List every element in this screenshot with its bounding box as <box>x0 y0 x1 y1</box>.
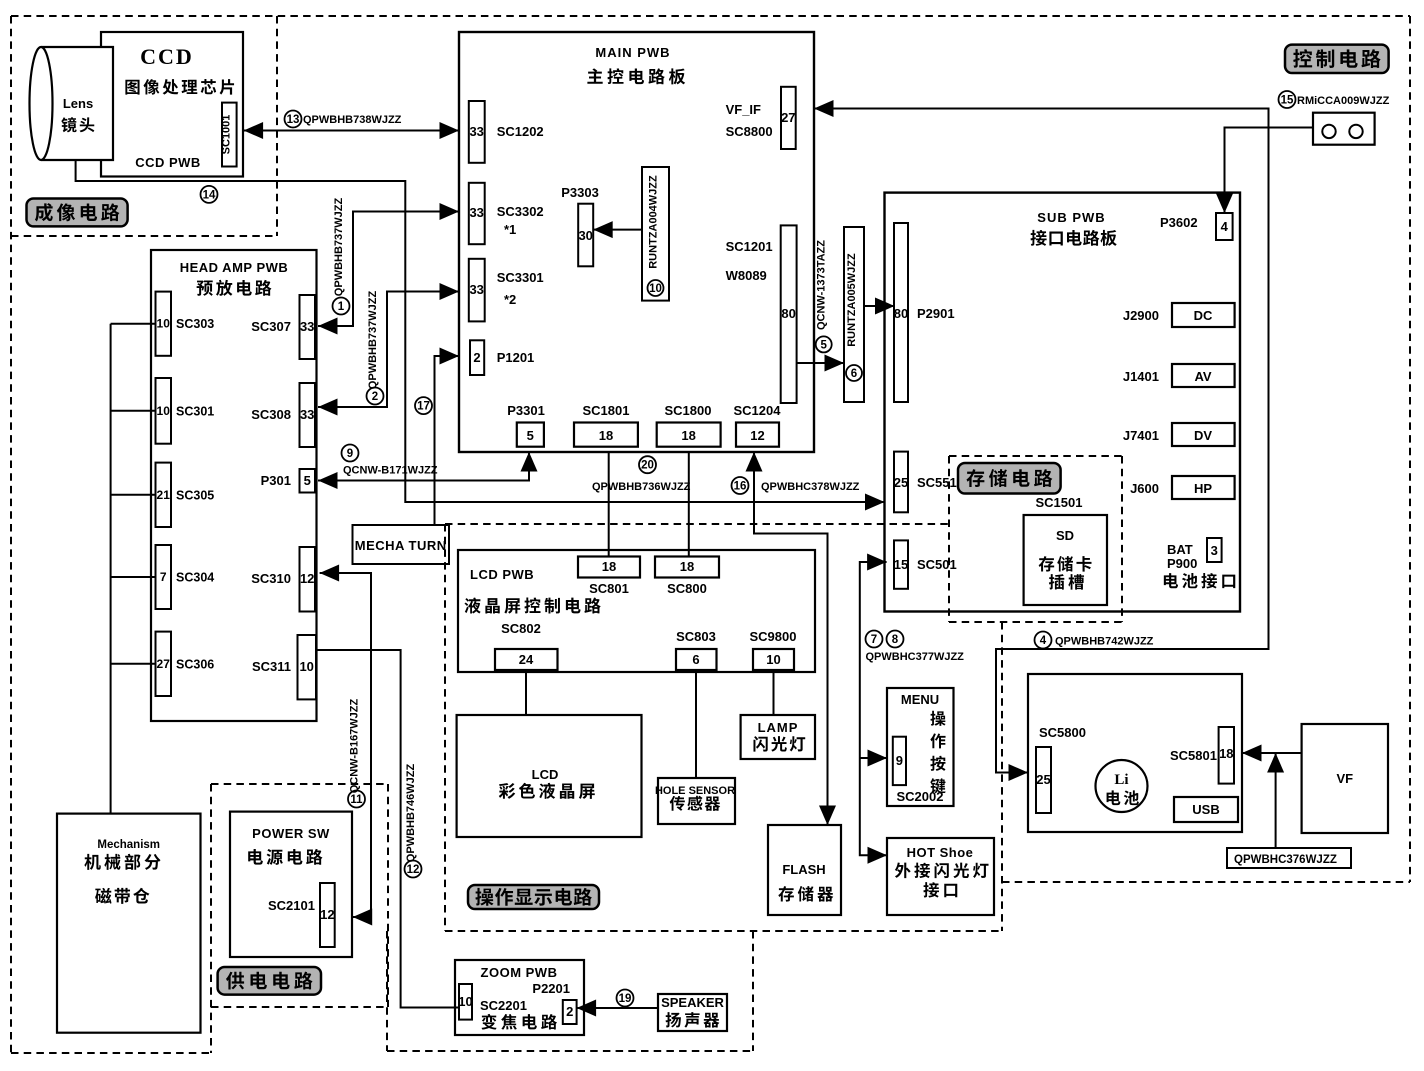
svg-text:CCD: CCD <box>140 44 194 69</box>
svg-text:QPWBHC376WJZZ: QPWBHC376WJZZ <box>1234 854 1337 866</box>
connector J2900 DC <box>1123 303 1235 327</box>
block SD card slot SC1501 <box>1024 495 1107 605</box>
svg-text:SC303: SC303 <box>176 317 214 331</box>
svg-text:SC1001: SC1001 <box>221 115 233 155</box>
svg-text:27: 27 <box>157 657 171 671</box>
block Li battery board <box>1028 674 1242 832</box>
connector SC3302 <box>469 183 544 244</box>
svg-text:RUNTZA004WJZZ: RUNTZA004WJZZ <box>648 175 660 269</box>
block SPEAKER <box>658 994 727 1031</box>
svg-text:9: 9 <box>896 753 903 768</box>
svg-text:USB: USB <box>1192 802 1219 817</box>
block remote connector <box>1313 113 1375 145</box>
svg-text:*2: *2 <box>504 292 516 307</box>
svg-text:QCNW-B167WJZZ: QCNW-B167WJZZ <box>349 698 361 793</box>
svg-text:25: 25 <box>894 475 908 490</box>
label 9 QCNW-B171WJZZ <box>342 445 438 477</box>
svg-text:11: 11 <box>350 794 363 806</box>
svg-text:SC307: SC307 <box>251 319 291 334</box>
svg-text:80: 80 <box>894 306 908 321</box>
connector USB <box>1174 797 1238 822</box>
svg-text:P3301: P3301 <box>507 403 545 418</box>
svg-text:BAT: BAT <box>1167 542 1193 557</box>
block HEAD AMP PWB <box>151 250 317 721</box>
wire head amp bus to mechanism <box>111 324 156 814</box>
wire 1 QPWBHB737WJZZ SC307-SC3302 <box>318 203 459 335</box>
svg-text:J1401: J1401 <box>1123 369 1159 384</box>
connector SC311 <box>252 635 316 699</box>
connector P1201 <box>470 340 534 375</box>
wire 9 QCNW-B171WJZZ P301-P3301 <box>318 452 538 489</box>
svg-text:2: 2 <box>473 350 480 365</box>
svg-text:SC2101: SC2101 <box>268 898 315 913</box>
label 12 QPWBHB746WJZZ <box>405 764 422 878</box>
wire 12 QPWBHB746WJZZ SC311 to ZOOM PWB <box>317 650 459 1008</box>
region storage dashed box <box>949 456 1122 622</box>
connector SC2002 9 <box>893 737 906 785</box>
wire 20 QPWBHB736WJZZ SC1801/SC1800 to LCD PWB <box>609 452 689 557</box>
label power-supply 供电电路 <box>218 967 321 995</box>
connector SC310 <box>251 547 315 612</box>
svg-text:CCD PWB: CCD PWB <box>135 155 201 170</box>
svg-text:17: 17 <box>417 401 430 413</box>
svg-text:Mechanism: Mechanism <box>97 839 160 851</box>
svg-text:SC802: SC802 <box>501 621 541 636</box>
svg-text:33: 33 <box>469 205 483 220</box>
svg-text:QPWBHC378WJZZ: QPWBHC378WJZZ <box>761 481 860 493</box>
svg-text:80: 80 <box>781 306 795 321</box>
connector SC802 24 <box>495 621 558 670</box>
svg-text:P3602: P3602 <box>1160 215 1198 230</box>
svg-text:33: 33 <box>300 407 314 422</box>
svg-text:J7401: J7401 <box>1123 428 1159 443</box>
svg-text:10: 10 <box>458 994 472 1009</box>
connector SC5800 25 <box>1036 725 1086 813</box>
svg-text:SC305: SC305 <box>176 488 214 502</box>
svg-text:12: 12 <box>320 907 334 922</box>
svg-text:HOLE SENSOR: HOLE SENSOR <box>655 785 735 797</box>
svg-text:4: 4 <box>1040 635 1047 647</box>
svg-text:SC1800: SC1800 <box>665 403 712 418</box>
connector SC301 <box>156 378 215 444</box>
svg-text:18: 18 <box>1219 746 1233 761</box>
block VF <box>1302 724 1388 833</box>
svg-text:13: 13 <box>287 114 300 126</box>
svg-text:21: 21 <box>157 488 171 502</box>
svg-text:P3303: P3303 <box>561 185 599 200</box>
svg-text:2: 2 <box>372 391 378 403</box>
svg-text:15: 15 <box>894 557 908 572</box>
connector BAT P900 3 <box>1164 538 1235 589</box>
svg-text:1: 1 <box>338 301 345 313</box>
svg-text:POWER SW: POWER SW <box>252 826 330 841</box>
svg-text:18: 18 <box>599 428 613 443</box>
label 16 QPWBHC378WJZZ <box>732 477 860 494</box>
wire 15 remote to P3602 <box>1216 128 1313 214</box>
label 4 QPWBHB742WJZZ <box>1035 632 1154 649</box>
connector SC306 <box>156 632 215 696</box>
connector P3303 <box>561 185 599 266</box>
block MENU SC2002 <box>887 688 954 806</box>
svg-text:HEAD AMP PWB: HEAD AMP PWB <box>180 260 289 275</box>
block HOLE SENSOR <box>655 778 735 824</box>
label 7 8 QPWBHC377WJZZ <box>866 631 965 664</box>
connector RUNTZA004WJZZ 10 <box>642 167 669 301</box>
svg-text:SC2201: SC2201 <box>480 998 527 1013</box>
block SUB PWB <box>885 193 1241 612</box>
label 13 QPWBHB738WJZZ <box>285 111 402 128</box>
svg-text:MECHA TURN: MECHA TURN <box>355 538 447 553</box>
connector SC9800 10 <box>750 629 797 670</box>
connector P2201 2 <box>563 1000 577 1024</box>
svg-text:SC800: SC800 <box>667 581 707 596</box>
svg-text:SC1801: SC1801 <box>583 403 630 418</box>
wire 16 SC1204 to FLASH <box>746 452 837 825</box>
svg-text:33: 33 <box>469 124 483 139</box>
wire VF to SC5801 <box>1242 745 1302 762</box>
wire 17 MECHA TURN to P1201 <box>435 348 460 526</box>
svg-text:ZOOM PWB: ZOOM PWB <box>481 965 558 980</box>
svg-text:SC501: SC501 <box>917 557 957 572</box>
connector SC1204 <box>734 403 782 447</box>
block ZOOM PWB <box>455 960 584 1035</box>
svg-text:10: 10 <box>766 652 780 667</box>
wire 7/8 QPWBHC377WJZZ SC501/MENU/HOT Shoe <box>860 554 887 864</box>
svg-text:SC3302: SC3302 <box>497 204 544 219</box>
svg-text:P2901: P2901 <box>917 306 955 321</box>
block CCD PWB <box>101 32 243 177</box>
svg-text:14: 14 <box>203 189 216 201</box>
connector SC303 <box>156 292 215 356</box>
svg-text:LAMP: LAMP <box>758 720 799 735</box>
svg-text:10: 10 <box>649 283 662 295</box>
battery Li <box>1096 760 1148 812</box>
svg-text:P1201: P1201 <box>497 350 535 365</box>
connector P301 <box>261 469 315 493</box>
wire LCD PWB to LCD panel <box>525 670 527 715</box>
connector J600 HP <box>1130 476 1235 499</box>
svg-text:*1: *1 <box>504 222 516 237</box>
wire SC803 to HOLE SENSOR <box>695 670 697 778</box>
svg-text:LCD: LCD <box>532 767 559 782</box>
svg-text:4: 4 <box>1221 219 1229 234</box>
svg-text:25: 25 <box>1036 772 1050 787</box>
svg-text:SC308: SC308 <box>251 407 291 422</box>
label control-circuit 控制电路 <box>1285 45 1389 73</box>
svg-text:12: 12 <box>407 864 420 876</box>
label 11 QCNW-B167WJZZ <box>348 698 365 807</box>
svg-text:SC801: SC801 <box>589 581 629 596</box>
svg-text:18: 18 <box>680 559 694 574</box>
svg-text:SC1202: SC1202 <box>497 124 544 139</box>
wire 11 QCNW-B167WJZZ SC310 to POWER SW <box>320 565 373 926</box>
svg-text:W8089: W8089 <box>726 268 767 283</box>
svg-text:33: 33 <box>469 282 483 297</box>
svg-text:6: 6 <box>692 652 699 667</box>
svg-text:SC310: SC310 <box>251 571 291 586</box>
svg-text:SC3301: SC3301 <box>497 270 544 285</box>
label 5 QCNW-1373TAZZ <box>816 240 832 353</box>
svg-text:27: 27 <box>781 110 795 125</box>
svg-text:FLASH: FLASH <box>782 862 825 877</box>
connector P3301 <box>507 403 545 447</box>
connector SC307 <box>251 295 315 359</box>
svg-text:9: 9 <box>347 448 353 460</box>
svg-text:MENU: MENU <box>901 692 939 707</box>
svg-text:J2900: J2900 <box>1123 308 1159 323</box>
svg-text:6: 6 <box>851 368 857 380</box>
block MAIN PWB <box>459 32 814 452</box>
block LCD panel <box>457 715 642 837</box>
wire 5 QCNW-1373TAZZ 80 to RUNTZA005 <box>797 355 844 372</box>
svg-text:10: 10 <box>157 404 171 418</box>
svg-text:SC1501: SC1501 <box>1036 495 1083 510</box>
wire 19 SPEAKER to P2201 <box>577 1000 658 1017</box>
svg-text:RUNTZA005WJZZ: RUNTZA005WJZZ <box>846 253 858 347</box>
svg-text:AV: AV <box>1194 369 1211 384</box>
connector SC8800 27 VF_IF <box>726 87 796 149</box>
svg-text:3: 3 <box>1211 543 1218 558</box>
block FLASH memory <box>768 825 841 915</box>
label 15 RMiCCA009WJZZ <box>1279 91 1390 108</box>
svg-text:12: 12 <box>300 571 314 586</box>
svg-text:SC9800: SC9800 <box>750 629 797 644</box>
connector SC1800 <box>657 403 721 447</box>
label 17 <box>415 397 432 414</box>
connector SC501 15 <box>894 540 957 588</box>
svg-text:33: 33 <box>300 319 314 334</box>
region control dashed bottom edge <box>1002 881 1410 883</box>
svg-text:7: 7 <box>160 570 167 584</box>
svg-text:QPWBHB737WJZZ: QPWBHB737WJZZ <box>367 291 379 390</box>
connector SC1801 <box>574 403 638 447</box>
block LCD PWB <box>458 550 815 672</box>
svg-text:DC: DC <box>1194 308 1213 323</box>
connector P2901 80 <box>894 223 955 402</box>
block MECHA TURN <box>353 525 450 564</box>
svg-text:8: 8 <box>892 634 899 646</box>
svg-text:30: 30 <box>578 228 592 243</box>
connector SC551 25 <box>894 452 957 513</box>
svg-text:7: 7 <box>871 634 877 646</box>
svg-text:HOT Shoe: HOT Shoe <box>907 845 974 860</box>
lens <box>30 47 114 160</box>
svg-text:SC1204: SC1204 <box>734 403 782 418</box>
svg-text:P301: P301 <box>261 473 291 488</box>
connector SC801 18 <box>578 557 640 597</box>
wire QPWBHC376WJZZ to VF line <box>1267 753 1284 848</box>
region operation-display dashed box <box>445 524 1002 931</box>
svg-text:10: 10 <box>157 317 171 331</box>
block HOT Shoe <box>887 838 994 915</box>
label 1 QPWBHB737WJZZ <box>333 198 350 315</box>
svg-text:VF_IF: VF_IF <box>726 102 761 117</box>
label 20 QPWBHB736WJZZ <box>592 456 691 493</box>
svg-text:MAIN PWB: MAIN PWB <box>595 45 670 60</box>
svg-text:SC2002: SC2002 <box>897 789 944 804</box>
svg-text:P2201: P2201 <box>532 981 570 996</box>
block LAMP <box>741 715 815 759</box>
connector SC1201 80 W8089 <box>726 225 797 403</box>
label storage-circuit 存储电路 <box>958 463 1061 494</box>
svg-text:RMiCCA009WJZZ: RMiCCA009WJZZ <box>1297 95 1390 107</box>
svg-text:J600: J600 <box>1130 481 1159 496</box>
svg-text:Lens: Lens <box>63 96 93 111</box>
connector SC3301 <box>469 259 544 322</box>
svg-text:24: 24 <box>519 652 534 667</box>
svg-text:SUB PWB: SUB PWB <box>1037 210 1105 225</box>
svg-text:DV: DV <box>1194 428 1212 443</box>
wire VF_IF SC8800 to Li battery SC5800 / 4 QPWBHB742WJZZ <box>814 100 1269 781</box>
svg-text:5: 5 <box>304 473 311 488</box>
svg-text:19: 19 <box>619 993 632 1005</box>
svg-text:SC551: SC551 <box>917 475 957 490</box>
label 2 QPWBHB737WJZZ <box>367 291 384 405</box>
svg-text:15: 15 <box>1281 95 1294 107</box>
label operation-display 操作显示电路 <box>468 885 599 909</box>
svg-text:QCNW-1373TAZZ: QCNW-1373TAZZ <box>816 240 828 330</box>
svg-text:SC5801: SC5801 <box>1170 748 1217 763</box>
svg-text:QPWBHB746WJZZ: QPWBHB746WJZZ <box>405 764 417 863</box>
svg-text:QCNW-B171WJZZ: QCNW-B171WJZZ <box>343 465 438 477</box>
label 14 <box>201 186 218 203</box>
svg-text:SC311: SC311 <box>252 659 291 674</box>
svg-text:SC306: SC306 <box>176 657 214 671</box>
label imaging-circuit 成像电路 <box>27 199 128 227</box>
wire SC9800 to LAMP <box>773 670 775 715</box>
connector SC305 <box>156 463 215 527</box>
svg-text:SD: SD <box>1056 528 1074 543</box>
svg-text:10: 10 <box>299 659 313 674</box>
svg-text:5: 5 <box>527 428 534 443</box>
svg-text:LCD PWB: LCD PWB <box>470 567 534 582</box>
connector SC800 18 <box>655 557 719 597</box>
connector SC304 <box>156 545 215 609</box>
connector RUNTZA005WJZZ 6 <box>844 227 864 402</box>
connector J1401 AV <box>1123 364 1235 387</box>
wire 13 QPWBHB738WJZZ CCD-MAIN <box>244 122 459 139</box>
block Mechanism <box>57 814 201 1033</box>
svg-text:5: 5 <box>820 339 827 351</box>
svg-text:QPWBHB742WJZZ: QPWBHB742WJZZ <box>1055 636 1154 648</box>
svg-text:SC803: SC803 <box>676 629 716 644</box>
block POWER SW <box>230 812 352 957</box>
svg-text:SC8800: SC8800 <box>726 124 773 139</box>
svg-text:2: 2 <box>566 1004 573 1019</box>
wire 14/16 CCD to SC551 QPWBHC378WJZZ <box>76 160 885 511</box>
svg-text:P900: P900 <box>1167 556 1197 571</box>
svg-text:12: 12 <box>750 428 764 443</box>
svg-text:HP: HP <box>1194 481 1212 496</box>
connector SC2101 12 <box>320 883 335 947</box>
connector J7401 DV <box>1123 423 1235 446</box>
connector SC803 6 <box>676 629 717 670</box>
svg-text:QPWBHC377WJZZ: QPWBHC377WJZZ <box>866 651 965 663</box>
wire 2 QPWBHB737WJZZ SC308-SC3301 <box>318 283 459 416</box>
connector SC5801 18 <box>1170 727 1234 784</box>
svg-text:16: 16 <box>734 481 747 493</box>
svg-text:SC5800: SC5800 <box>1039 725 1086 740</box>
connector SC308 <box>251 383 315 447</box>
svg-text:SC1201: SC1201 <box>726 239 773 254</box>
connector P3602 4 <box>1160 213 1233 240</box>
svg-text:QPWBHB736WJZZ: QPWBHB736WJZZ <box>592 481 691 493</box>
connector SC2201 10 <box>458 984 472 1020</box>
connector SC1202 <box>469 101 544 163</box>
svg-text:20: 20 <box>641 460 654 472</box>
svg-text:18: 18 <box>602 559 616 574</box>
region zoom dashed box <box>387 931 753 1051</box>
label QPWBHC376WJZZ box <box>1227 848 1351 868</box>
connector SC1001 <box>221 103 237 167</box>
svg-text:QPWBHB737WJZZ: QPWBHB737WJZZ <box>333 198 345 297</box>
svg-text:SC304: SC304 <box>176 571 214 585</box>
svg-text:QPWBHB738WJZZ: QPWBHB738WJZZ <box>303 114 402 126</box>
region power-supply dashed box <box>211 784 388 1053</box>
svg-text:SPEAKER: SPEAKER <box>661 995 724 1010</box>
svg-text:18: 18 <box>681 428 695 443</box>
wire 6 RUNTZA005 to P2901 <box>864 298 895 315</box>
svg-text:Li: Li <box>1114 772 1128 788</box>
label 19 <box>617 990 634 1007</box>
wire 10 RUNTZA004 to P3303 <box>593 221 642 238</box>
svg-text:VF: VF <box>1336 771 1353 786</box>
svg-text:SC301: SC301 <box>176 404 214 418</box>
region imaging-circuit dashed box <box>11 16 277 236</box>
